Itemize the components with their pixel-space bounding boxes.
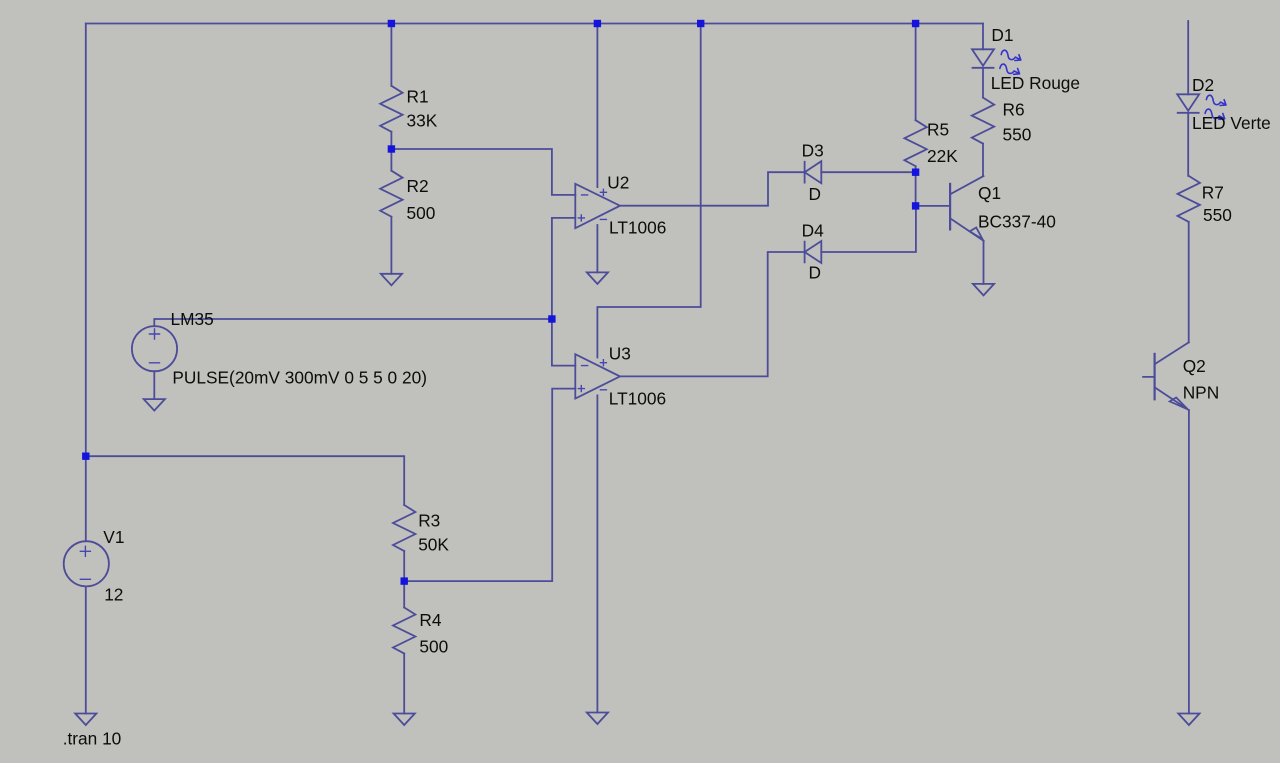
wire V1 bottom to ground: [85, 586, 87, 713]
svg-text:550: 550: [1203, 205, 1232, 225]
node junction rail/R1: [388, 20, 395, 27]
node junction rail/R5: [912, 20, 919, 27]
wire U3 V- pin to ground: [596, 395, 598, 712]
wire U2 V- pin to ground: [596, 225, 598, 272]
svg-text:R5: R5: [927, 120, 949, 140]
op-amp U2: [575, 184, 620, 228]
svg-text:V1: V1: [103, 527, 124, 547]
voltage source LM35: [132, 326, 177, 371]
ground below R4: [394, 714, 415, 726]
svg-text:R3: R3: [418, 511, 440, 531]
svg-text:LM35: LM35: [171, 309, 214, 329]
svg-text:.tran 10: .tran 10: [63, 728, 122, 748]
svg-text:D: D: [809, 184, 821, 204]
wire R7 to Q2 collector: [1188, 222, 1190, 342]
transistor Q2: [1143, 342, 1189, 410]
svg-text:Q2: Q2: [1183, 356, 1206, 376]
resistor R3: [393, 505, 415, 551]
ground below U3: [587, 713, 608, 725]
svg-text:12: 12: [104, 584, 123, 604]
wire R5 top lead from rail: [915, 24, 917, 121]
node junction rail/U2 V+: [594, 20, 601, 27]
wire U2 output to D3: [620, 172, 805, 206]
ground below R2: [381, 274, 402, 286]
wire D1 to R6: [982, 68, 984, 98]
LED D2: [1177, 94, 1226, 119]
resistor R7: [1178, 176, 1200, 222]
svg-text:D3: D3: [802, 141, 824, 161]
svg-text:LED Verte: LED Verte: [1192, 113, 1271, 133]
svg-text:500: 500: [407, 203, 436, 223]
resistor R1: [380, 86, 402, 132]
svg-text:LED Rouge: LED Rouge: [991, 73, 1080, 93]
wire R3 bottom lead to node: [403, 551, 405, 581]
svg-text:LT1006: LT1006: [609, 389, 666, 409]
svg-text:550: 550: [1003, 125, 1032, 145]
wire R4 leads: [403, 581, 405, 713]
wire D2 to R7: [1187, 113, 1189, 176]
wire D2 top stub: [1187, 21, 1189, 94]
wire LM35 top to output node: [154, 319, 552, 326]
node junction R3/R4: [401, 577, 408, 584]
wire U2 V+ pin to rail: [596, 24, 598, 188]
wire LM35 node to U3 minus input: [552, 319, 575, 366]
wire R1 top lead from rail: [390, 24, 392, 86]
resistor R6: [972, 98, 994, 144]
node junction LM35 output: [548, 315, 555, 322]
svg-text:NPN: NPN: [1183, 383, 1220, 403]
wire U3 V+ pin to rail: [597, 24, 700, 358]
resistor R5: [904, 120, 926, 166]
wire LM35 bottom to ground: [153, 371, 155, 399]
svg-text:D: D: [809, 263, 821, 283]
wire R3/R4 node to U3 plus input: [404, 389, 575, 581]
wire U3 output to D4: [620, 252, 805, 376]
svg-text:D2: D2: [1192, 75, 1214, 95]
wire R5 bottom lead to node: [915, 166, 917, 172]
resistor R2: [380, 171, 402, 217]
wire LM35 node to U2 plus input: [552, 218, 575, 319]
wire R1 bottom lead to node: [390, 132, 392, 149]
svg-text:BC337-40: BC337-40: [978, 212, 1056, 232]
resistor R4: [393, 608, 415, 654]
wire D3 to node: [821, 171, 915, 173]
wire node to Q1 base: [916, 205, 951, 207]
svg-text:50K: 50K: [418, 535, 449, 555]
svg-text:R7: R7: [1202, 183, 1224, 203]
wire node left to R3 top: [86, 456, 404, 505]
wire Q1 emitter to ground: [983, 241, 985, 284]
svg-text:R6: R6: [1003, 99, 1025, 119]
svg-text:R1: R1: [407, 86, 429, 106]
LED D1: [972, 49, 1021, 74]
svg-text:500: 500: [419, 636, 448, 656]
ground below LM35: [144, 399, 165, 411]
wire between D3 node and D4 node: [915, 172, 917, 206]
wire Q2 emitter to ground: [1188, 410, 1190, 713]
svg-text:U3: U3: [609, 344, 631, 364]
svg-text:22K: 22K: [927, 146, 958, 166]
node junction left rail / R3 branch: [82, 453, 89, 460]
node junction D3/R5: [912, 169, 919, 176]
svg-text:LT1006: LT1006: [609, 217, 666, 237]
ground below V1: [75, 714, 96, 726]
ground below Q2: [1178, 714, 1199, 726]
svg-text:PULSE(20mV 300mV 0 5 5 0 20): PULSE(20mV 300mV 0 5 5 0 20): [172, 367, 427, 387]
wire left vertical from rail to V1: [85, 24, 87, 542]
svg-text:Q1: Q1: [978, 183, 1001, 203]
wire R6 bottom lead to Q1 collector: [982, 144, 984, 177]
wire R2 leads: [390, 149, 392, 274]
diode D3: [805, 161, 822, 183]
node junction rail/U3 V+: [697, 20, 704, 27]
svg-text:33K: 33K: [407, 111, 438, 131]
wire D4 to node column: [821, 206, 916, 252]
wire top supply rail: [86, 23, 983, 25]
ground below U2: [587, 272, 608, 284]
node junction D4/Q1 base: [912, 202, 919, 209]
svg-text:D1: D1: [991, 25, 1013, 45]
voltage source V1: [64, 541, 109, 586]
op-amp U3: [575, 354, 620, 398]
svg-text:R2: R2: [407, 176, 429, 196]
diode D4: [805, 241, 822, 263]
ground below Q1: [973, 284, 994, 296]
svg-text:R4: R4: [419, 610, 441, 630]
wire rail corner to D1: [982, 24, 984, 50]
svg-text:U2: U2: [607, 173, 629, 193]
wire R1/R2 node to U2 minus input: [391, 149, 575, 195]
svg-text:D4: D4: [802, 220, 824, 240]
node junction R1/R2: [388, 145, 395, 152]
transistor Q1: [950, 176, 983, 241]
